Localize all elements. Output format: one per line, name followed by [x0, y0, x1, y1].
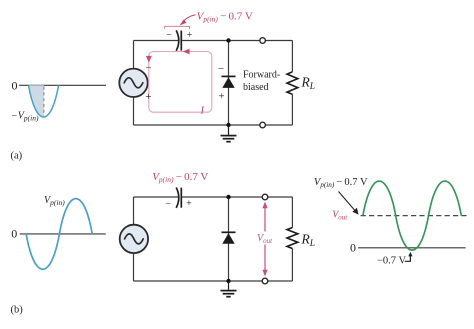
capacitor C (b): straight plate: [180, 188, 182, 208]
svg-text:RL: RL: [301, 75, 316, 93]
wire: circuit (a) top, source to capacitor: [134, 40, 179, 42]
wire: circuit (b) top, capacitor to right corner: [181, 196, 292, 198]
input waveform (b): zero axis: [20, 233, 106, 235]
annotation brace over capacitor (a): [165, 26, 190, 29]
input waveform (a): negative half-cycle lobe: [29, 85, 59, 117]
terminal: circuit (a) top right: [260, 38, 266, 44]
node: junction dot bottom of diode (b): [226, 279, 230, 283]
wire: circuit (a) left side upper: [133, 41, 135, 69]
svg-text:Vp(in) − 0.7 V: Vp(in) − 0.7 V: [152, 171, 208, 184]
AC source VS (b): [120, 225, 148, 253]
output waveform (b): pointer to trough: [405, 252, 413, 261]
wire: circuit (b) right side lower: [291, 249, 293, 282]
diode D1 (a): triangle: [222, 77, 234, 88]
svg-text:Vp(in) − 0.7 V: Vp(in) − 0.7 V: [197, 10, 253, 23]
svg-text:Vp(in): Vp(in): [44, 195, 65, 207]
wire: circuit (b) bottom: [134, 280, 293, 282]
svg-text:0: 0: [12, 79, 18, 93]
current loop I (a): arrowhead on left segment pointing down: [146, 56, 152, 63]
capacitor C (a): straight plate: [180, 31, 182, 51]
svg-text:+: +: [218, 90, 224, 102]
svg-text:Vout: Vout: [257, 233, 273, 245]
svg-text:−: −: [218, 63, 224, 75]
svg-text:I: I: [200, 106, 205, 117]
svg-text:Forward-: Forward-: [243, 70, 280, 81]
capacitor C (b): curved plate: [176, 188, 179, 208]
annotation arrow to capacitor (a): [180, 15, 196, 26]
output waveform (b): green sine: [363, 181, 461, 250]
ground (b): [221, 281, 237, 297]
node: junction dot top of diode (a): [226, 38, 230, 42]
capacitor C (a): curved plate: [176, 30, 179, 50]
svg-text:Vout: Vout: [332, 210, 348, 222]
terminal: circuit (b) top right: [262, 194, 268, 200]
ground (a): [221, 125, 237, 142]
input waveform (a): zero axis: [19, 84, 106, 86]
svg-text:0: 0: [11, 227, 17, 241]
svg-text:Vp(in) − 0.7 V: Vp(in) − 0.7 V: [314, 177, 368, 189]
input waveform (b): full sine: [26, 199, 92, 270]
input waveform (a): dashed line to trough: [43, 87, 45, 116]
current loop I (a): arrowhead on top segment pointing left: [183, 49, 190, 55]
svg-text:(a): (a): [11, 150, 23, 161]
wire: circuit (a) bottom: [134, 124, 293, 126]
AC source VS (a): [119, 69, 147, 97]
terminal: circuit (a) bottom right: [260, 122, 266, 128]
svg-text:biased: biased: [243, 82, 269, 93]
current loop I (a): rounded rectangle path: [149, 52, 212, 113]
output waveform (b): dashed average level line: [361, 215, 467, 217]
svg-text:RL: RL: [301, 232, 316, 250]
svg-text:0: 0: [350, 240, 356, 254]
output waveform (b): arrow from label to dashed line: [339, 192, 359, 215]
wire: circuit (a) diode branch: [228, 41, 230, 126]
resistor RL (b): zigzag: [287, 228, 298, 249]
diode D1 (a): cathode bar: [222, 75, 236, 77]
wire: circuit (a) left side lower: [133, 97, 135, 125]
diode D1 (b): triangle: [222, 233, 234, 244]
svg-text:−: −: [166, 30, 172, 41]
svg-text:(b): (b): [11, 304, 24, 315]
svg-text:−0.7 V: −0.7 V: [377, 255, 406, 266]
wire: circuit (a) top, capacitor to right corner: [181, 40, 292, 42]
wire: circuit (b) left side lower: [133, 253, 135, 281]
wire: circuit (b) top, source to capacitor: [134, 196, 179, 198]
diode D1 (b): cathode bar: [222, 231, 236, 233]
wire: circuit (b) diode branch: [228, 197, 230, 281]
output arrow Vout (b): lower segment with arrowhead down: [262, 245, 267, 277]
svg-text:−: −: [145, 63, 151, 75]
output waveform (b): zero axis: [358, 247, 466, 249]
input waveform (a): shaded first quarter-cycle: [29, 85, 44, 117]
svg-text:−: −: [165, 199, 171, 210]
node: junction dot bottom of diode (a): [226, 123, 230, 127]
svg-text:+: +: [187, 30, 193, 41]
output arrow Vout (b): upper segment with arrowhead up: [262, 202, 267, 232]
node: junction dot top of diode (b): [226, 195, 230, 199]
wire: circuit (b) right side upper: [291, 197, 293, 228]
svg-text:+: +: [145, 91, 151, 103]
wire: circuit (a) right side upper: [291, 41, 293, 72]
wire: circuit (b) left side upper: [133, 197, 135, 225]
terminal: circuit (b) bottom right: [262, 278, 268, 284]
wire: circuit (a) right side lower: [291, 94, 293, 125]
svg-text:−Vp(in): −Vp(in): [11, 110, 39, 122]
resistor RL (a): zigzag: [287, 72, 298, 95]
svg-text:+: +: [186, 199, 192, 210]
